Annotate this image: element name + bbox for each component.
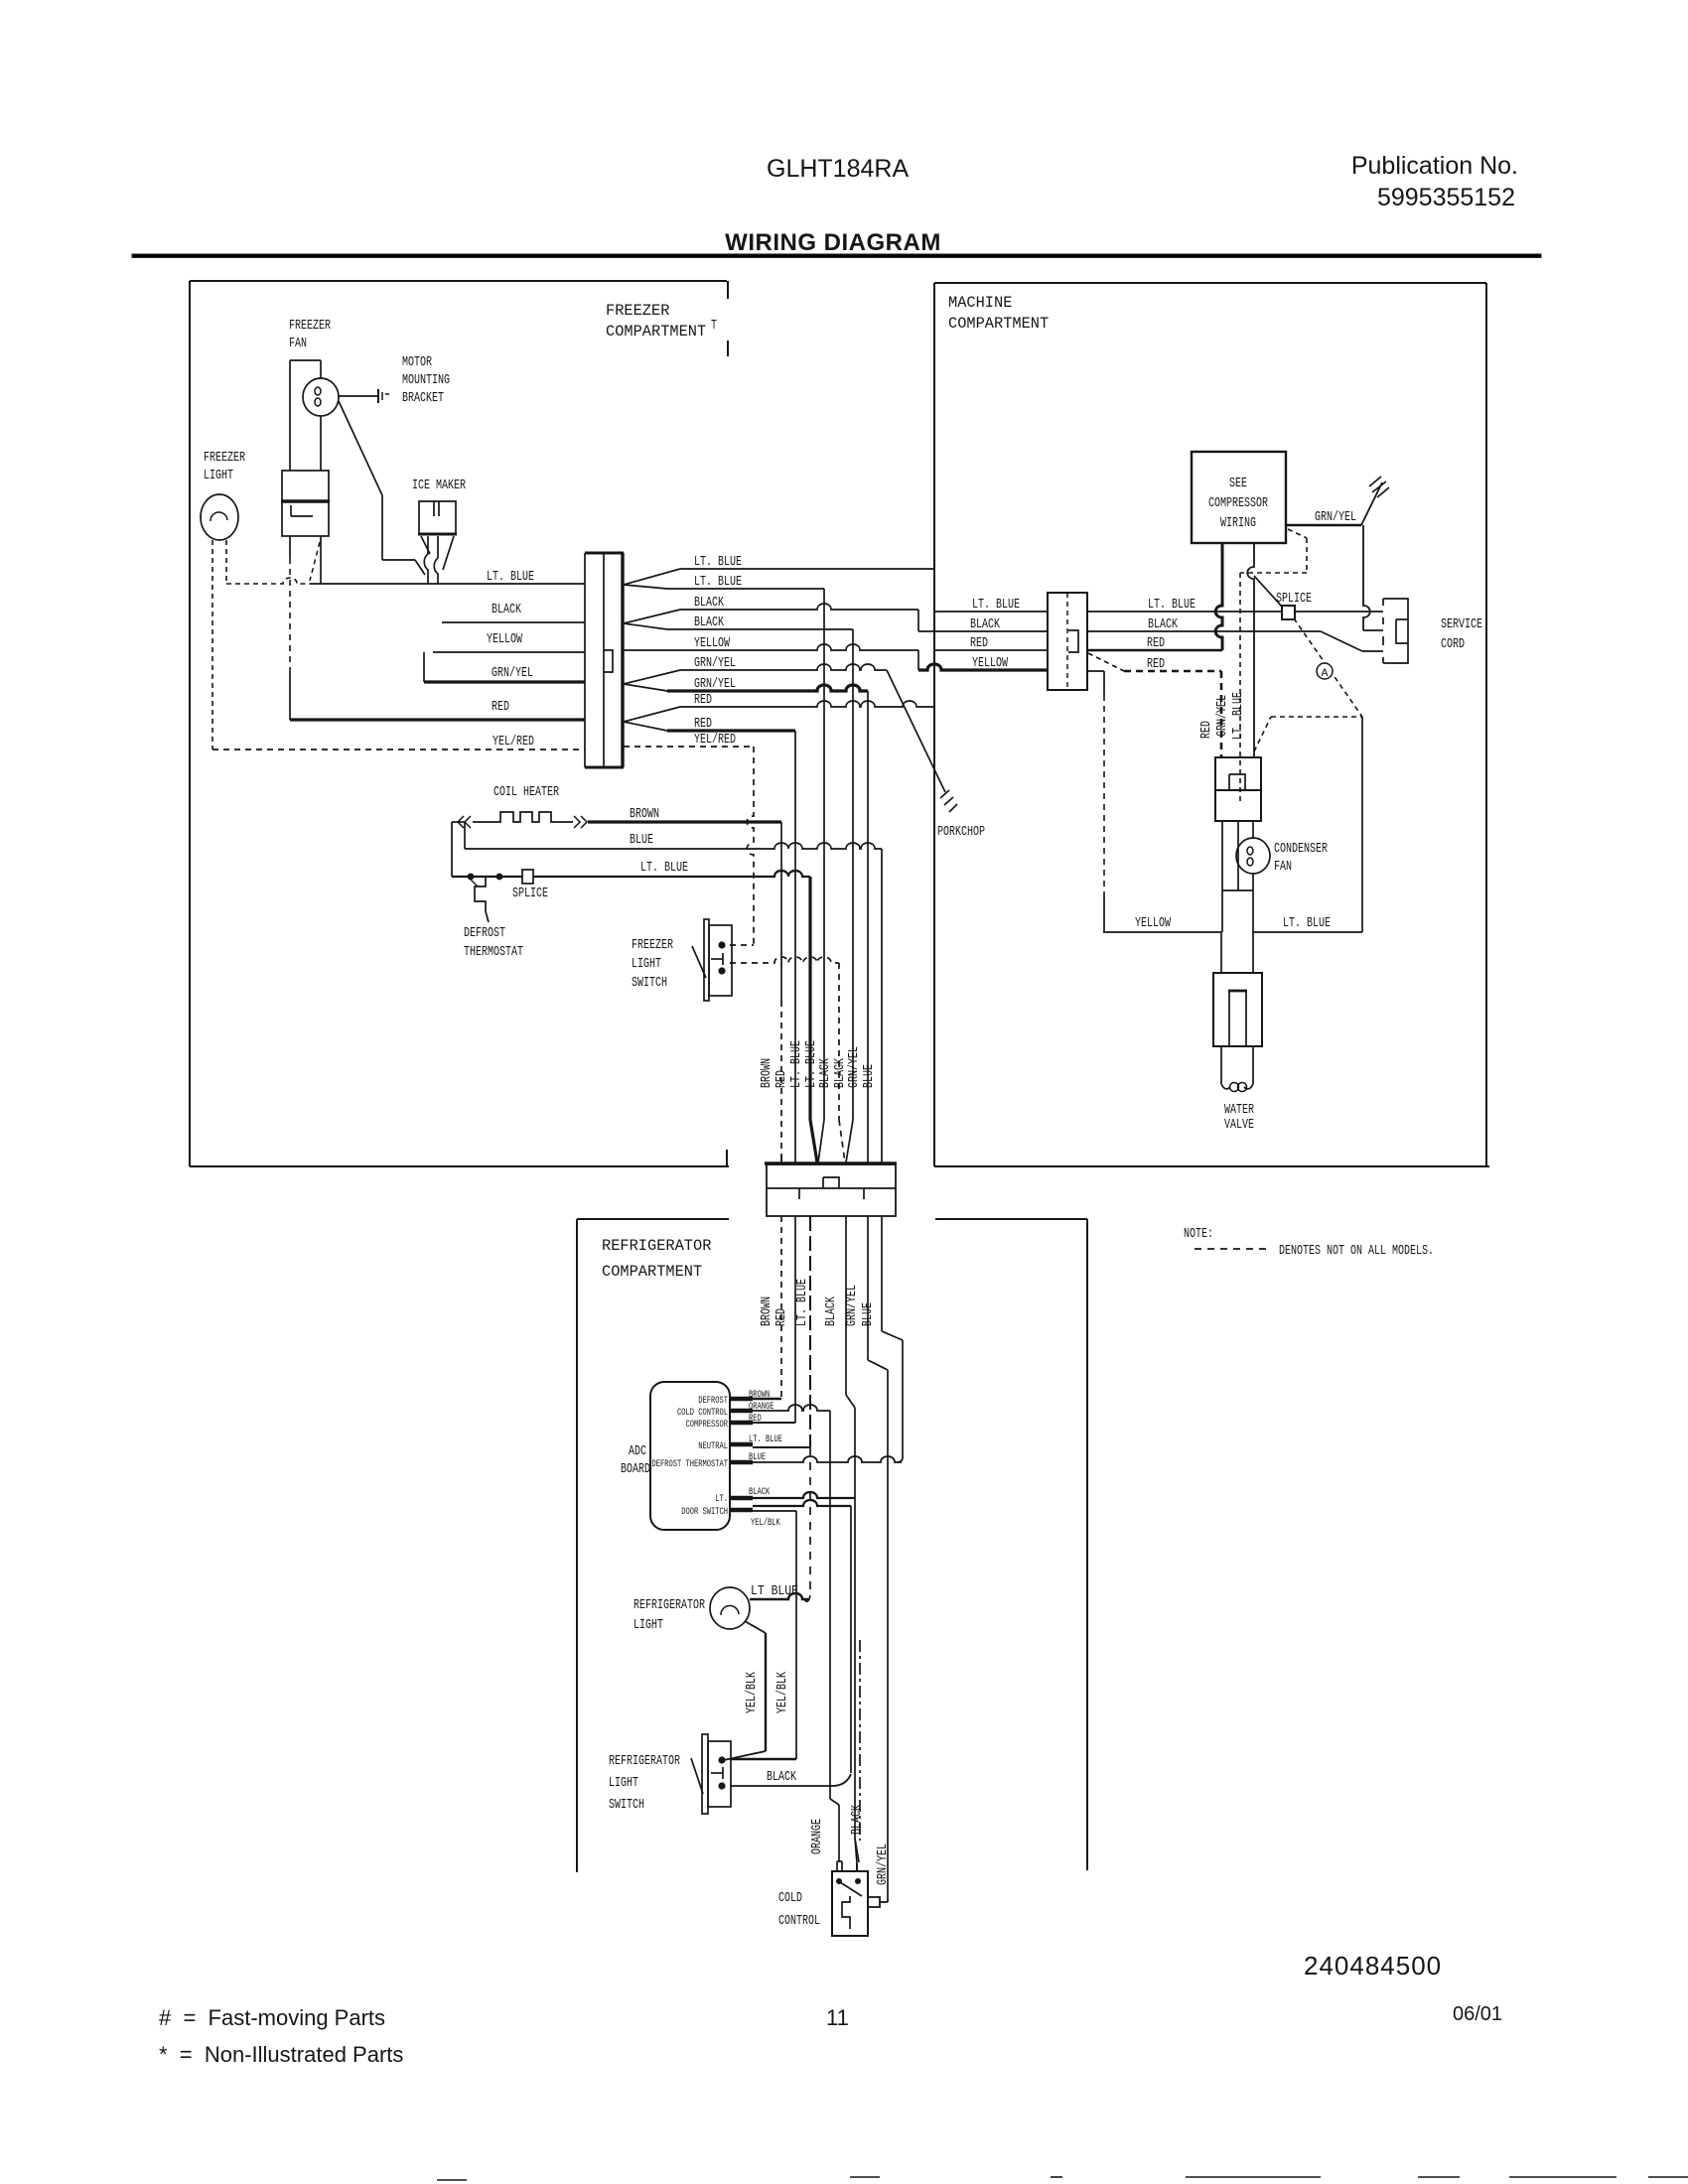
wire GRN/YEL run 2 (667, 685, 868, 691)
freezer fan body rectangles (282, 471, 329, 501)
wire RED dashed to relay (1087, 670, 1104, 672)
svg-text:SERVICE: SERVICE (1441, 617, 1482, 632)
wire YEL/BLK top contact (730, 1758, 796, 1760)
wire BLUE vertical drop (881, 849, 883, 1163)
wire RED machine (934, 649, 1048, 651)
svg-text:COIL HEATER: COIL HEATER (493, 785, 559, 800)
ice maker pins (424, 536, 428, 584)
svg-text:240484500: 240484500 (1304, 1951, 1442, 1980)
svg-text:BRACKET: BRACKET (402, 391, 444, 406)
svg-text:RED: RED (970, 636, 988, 651)
wire BLUE heater (465, 843, 882, 849)
svg-text:CONDENSER: CONDENSER (1274, 842, 1328, 857)
title underline rule (132, 254, 1541, 257)
wire BLUE from ADC defrost thermostat (753, 1456, 902, 1462)
wire BROWN to ADC defrost pin (753, 1398, 781, 1401)
wire LT.BLUE step at machine border (933, 569, 935, 612)
wire ORANGE from ADC (753, 1405, 830, 1411)
lt.blue dash-dot spur (859, 1640, 861, 1841)
svg-text:GRN/YEL: GRN/YEL (1215, 695, 1230, 737)
svg-text:RED: RED (774, 1070, 789, 1088)
wire condenser fan bottom (1252, 874, 1254, 932)
svg-text:MOUNTING: MOUNTING (402, 373, 450, 388)
svg-text:ORANGE: ORANGE (810, 1819, 825, 1854)
wire LT. BLUE vertical drop 2 (823, 589, 825, 1120)
svg-text:5995355152: 5995355152 (1377, 184, 1515, 211)
svg-text:WATER: WATER (1224, 1103, 1254, 1118)
svg-text:BLACK: BLACK (767, 1770, 797, 1785)
ice maker body (419, 501, 456, 534)
wire LT. BLUE below connector (809, 1216, 811, 1447)
svg-text:NOTE:: NOTE: (1184, 1227, 1213, 1242)
svg-text:BLACK: BLACK (833, 1057, 848, 1088)
svg-text:BLUE: BLUE (630, 833, 653, 848)
svg-text:LIGHT: LIGHT (609, 1776, 638, 1791)
defrost thermostat symbol (475, 877, 489, 922)
wire YELLOW bottom run (1103, 931, 1221, 933)
wire BLACK feeder (442, 621, 585, 623)
svg-text:YEL/RED: YEL/RED (694, 733, 736, 748)
wire BLACK below connector (845, 1216, 847, 1395)
svg-text:GRN/YEL: GRN/YEL (694, 656, 736, 671)
cold control side tab (868, 1897, 880, 1907)
wire fanout BLACK pair (624, 610, 680, 623)
svg-text:LT. BLUE: LT. BLUE (972, 598, 1020, 613)
svg-text:FREEZER: FREEZER (606, 302, 669, 320)
svg-text:YELLOW: YELLOW (487, 632, 523, 647)
wire GRN/YEL main vertical (887, 1370, 889, 1898)
wire fanout RED pair (624, 707, 680, 722)
svg-text:SPLICE: SPLICE (512, 887, 548, 901)
wire bracket diagonal to ice maker (339, 401, 382, 495)
wire LT BLUE to light (750, 1593, 809, 1599)
svg-text:COMPARTMENT: COMPARTMENT (606, 323, 706, 341)
svg-text:FREEZER: FREEZER (289, 319, 331, 334)
svg-text:PORKCHOP: PORKCHOP (937, 825, 985, 840)
cold control left pin (837, 1861, 842, 1871)
svg-text:DEFROST THERMOSTAT: DEFROST THERMOSTAT (652, 1458, 729, 1470)
svg-text:LT. BLUE: LT. BLUE (694, 555, 742, 570)
wire water valve coil legs (1220, 1046, 1222, 1084)
svg-text:LT. BLUE: LT. BLUE (749, 1433, 782, 1445)
svg-text:LT. BLUE: LT. BLUE (1231, 692, 1246, 740)
wire GRN/YEL into cold control (880, 1901, 888, 1903)
svg-text:RED: RED (694, 717, 712, 732)
wire dashed switch lower contact (730, 957, 839, 963)
wire lt.blue splice to plug (1294, 611, 1383, 613)
svg-text:VALVE: VALVE (1224, 1118, 1254, 1133)
wire fan motor to body (320, 416, 322, 471)
svg-text:SEE: SEE (1229, 477, 1247, 491)
wire BLACK dashed vertical drop (838, 963, 840, 1120)
wire GRN/YEL below connector (867, 1216, 869, 1360)
wire BROWN below connector dashed (780, 1216, 782, 1399)
connector C3 refrigerator harness (765, 1161, 897, 1164)
svg-text:A: A (1322, 668, 1329, 680)
svg-text:RED: RED (492, 700, 509, 715)
svg-text:DEFROST: DEFROST (698, 1395, 728, 1407)
refrigerator light bulb (710, 1587, 750, 1629)
svg-text:LT. BLUE: LT. BLUE (1283, 916, 1331, 931)
wire GRN/YEL vertical drop (867, 691, 869, 1163)
svg-text:REFRIGERATOR: REFRIGERATOR (602, 1237, 711, 1255)
svg-text:RED: RED (694, 693, 712, 708)
svg-text:NEUTRAL: NEUTRAL (698, 1440, 728, 1452)
svg-text:GRN/YEL: GRN/YEL (847, 1046, 862, 1088)
svg-text:COLD: COLD (778, 1891, 802, 1906)
porkchop ground hatching (940, 790, 949, 798)
freezer fan motor circle (303, 378, 339, 416)
wire GRN/YEL feeder (424, 680, 585, 683)
wire freezer light dashed to yel/red (211, 540, 213, 750)
wire RED vertical drop (794, 731, 796, 1163)
svg-text:YEL/BLK: YEL/BLK (775, 1671, 790, 1713)
connector C1 freezer harness (585, 552, 624, 555)
wire fan RED drop (289, 536, 291, 558)
svg-text:GLHT184RA: GLHT184RA (767, 155, 909, 183)
ground symbol (1372, 481, 1386, 492)
refrigerator compartment box (577, 1218, 729, 1220)
svg-text:LT. BLUE: LT. BLUE (795, 1279, 810, 1326)
svg-text:LT. BLUE: LT. BLUE (789, 1040, 804, 1088)
svg-text:ADC: ADC (629, 1444, 646, 1459)
svg-text:LT.: LT. (715, 1493, 728, 1505)
ADC board box (650, 1382, 730, 1530)
svg-text:MACHINE: MACHINE (948, 294, 1012, 312)
freezer light switch body (704, 919, 709, 1001)
wire RED below connector (794, 1216, 796, 1423)
wire BLACK vertical drop (852, 629, 854, 1120)
connector C1 latch notch (604, 650, 613, 672)
freezer compartment box (190, 280, 727, 282)
dashed route horizontal (1271, 716, 1362, 718)
wire YELLOW step at machine border (917, 650, 919, 670)
wire BLACK machine (918, 630, 1048, 632)
wire BLACK to service cord (1087, 630, 1321, 632)
wire BLACK main vertical (854, 1408, 856, 1839)
wire fanout LT. BLUE pair (624, 569, 680, 585)
wire service neutral vertical (1361, 717, 1363, 932)
wire LT. BLUE bottom run (1253, 931, 1362, 933)
wire compressor pin2 lt.blue (1247, 543, 1254, 750)
svg-text:COMPRESSOR: COMPRESSOR (686, 1419, 729, 1431)
see compressor wiring box (1192, 452, 1286, 543)
svg-text:T: T (711, 319, 717, 334)
svg-text:YELLOW: YELLOW (1135, 916, 1172, 931)
svg-text:BLACK: BLACK (749, 1486, 771, 1498)
splice square on lt.blue (522, 870, 533, 884)
wire BLACK run 2 (667, 628, 853, 630)
svg-text:YELLOW: YELLOW (694, 636, 731, 651)
wire RED dashed relay drop (1220, 671, 1223, 757)
svg-text:GRN/YEL: GRN/YEL (694, 677, 736, 692)
svg-text:COMPARTMENT: COMPARTMENT (602, 1263, 702, 1281)
wire LT. BLUE feeder (310, 583, 585, 585)
svg-text:LT. BLUE: LT. BLUE (694, 575, 742, 590)
wire relay mid pin (1237, 821, 1239, 890)
ADC pin stubs (730, 1397, 753, 1402)
svg-text:ICE MAKER: ICE MAKER (412, 478, 466, 493)
wire pin2 diagonal to splice (1254, 576, 1282, 607)
wire GRN/YEL run 1 (680, 664, 887, 670)
wire yellow drop from connector (1103, 671, 1105, 695)
svg-text:BLACK: BLACK (492, 603, 522, 617)
wire dashed switch to yel/red (730, 944, 754, 946)
svg-text:BROWN: BROWN (760, 1297, 774, 1326)
wire water valve feeds (1220, 932, 1222, 973)
svg-text:LT. BLUE: LT. BLUE (1148, 598, 1196, 613)
wire BLUE below connector (881, 1216, 883, 1331)
wire LT. BLUE machine (934, 611, 1048, 613)
wire YELLOW feeder (433, 651, 585, 653)
svg-text:FREEZER: FREEZER (204, 451, 245, 466)
svg-text:SWITCH: SWITCH (609, 1798, 644, 1813)
svg-text:SWITCH: SWITCH (632, 976, 667, 991)
svg-text:BLUE: BLUE (862, 1064, 877, 1088)
svg-text:COLD CONTROL: COLD CONTROL (677, 1407, 728, 1419)
svg-text:GRN/YEL: GRN/YEL (492, 666, 533, 681)
svg-text:BLACK: BLACK (1148, 617, 1179, 632)
splice square (1282, 606, 1295, 619)
junction dots defrost thermostat (468, 874, 475, 881)
wire LT. BLUE vertical drop thick (808, 877, 811, 1120)
wire fan to LT. BLUE node (320, 536, 322, 584)
svg-text:CORD: CORD (1441, 637, 1465, 652)
svg-text:Publication No.: Publication No. (1351, 152, 1518, 180)
wire YEL/RED dashed feeder (212, 749, 585, 751)
circled A symbol (1317, 663, 1333, 679)
svg-text:BOARD: BOARD (621, 1462, 650, 1477)
wire NEUTRAL to ADC (753, 1446, 810, 1448)
motor mounting bracket symbol (339, 395, 377, 397)
wire RED to compressor (1087, 649, 1222, 652)
freezer light bulb (201, 494, 238, 540)
wire GRN/YEL dashed drop to relay (1239, 573, 1241, 804)
machine compartment box (934, 282, 1486, 284)
wire RED run 1 (680, 701, 934, 707)
svg-text:BROWN: BROWN (760, 1058, 774, 1088)
svg-text:BROWN: BROWN (630, 807, 659, 822)
scan noise bottom edge (850, 2176, 880, 2178)
svg-text:LIGHT: LIGHT (633, 1618, 663, 1633)
wire condenser fan top (1252, 821, 1254, 839)
svg-text:LT. BLUE: LT. BLUE (640, 861, 688, 876)
wire LT. BLUE to splice (1087, 611, 1282, 613)
svg-text:REFRIGERATOR: REFRIGERATOR (609, 1754, 680, 1769)
dashed route diagonal to relay (1254, 717, 1271, 751)
wire LT. BLUE run 1 (680, 568, 934, 570)
water valve coil (1221, 1084, 1230, 1089)
wire relay left pin (1221, 821, 1223, 932)
svg-text:LIGHT: LIGHT (632, 957, 661, 972)
svg-text:BLACK: BLACK (818, 1057, 833, 1088)
svg-text:COMPARTMENT: COMPARTMENT (948, 315, 1049, 333)
wire YELLOW run (624, 644, 918, 650)
wire YEL/RED dashed run (624, 746, 754, 748)
svg-text:RED: RED (774, 1308, 789, 1326)
wire compressor pin1 (1215, 543, 1222, 650)
svg-text:* = Non-Illustrated Parts: * = Non-Illustrated Parts (159, 2042, 403, 2067)
wire GRN/YEL to ground (1286, 524, 1361, 526)
wire RED run 2 (667, 729, 795, 732)
dashed route splice to A (1294, 618, 1362, 717)
svg-text:DENOTES NOT ON ALL MODELS.: DENOTES NOT ON ALL MODELS. (1279, 1244, 1434, 1259)
wire BLUE defrost thermostat vertical (902, 1340, 904, 1457)
svg-text:FREEZER: FREEZER (632, 938, 673, 953)
wire RED to ADC compressor pin (753, 1422, 795, 1424)
wire YELLOW machine (918, 664, 1048, 670)
wire GRN/YEL service drop (1363, 525, 1370, 630)
cold control right pin (856, 1863, 858, 1871)
svg-text:YEL/BLK: YEL/BLK (745, 1671, 760, 1713)
wire porkchop diagonal (887, 670, 945, 792)
wire freezer light dashed to lt.blue (225, 540, 227, 584)
svg-text:RED: RED (1199, 721, 1214, 739)
svg-text:LT BLUE: LT BLUE (751, 1584, 798, 1599)
coil heater element (452, 821, 465, 823)
svg-text:BLACK: BLACK (970, 617, 1001, 632)
wire BLACK from ADC (753, 1492, 855, 1498)
wire BROWN vertical drop (780, 822, 782, 1001)
svg-text:RED: RED (1147, 636, 1165, 651)
svg-text:LT. BLUE: LT. BLUE (487, 570, 534, 585)
svg-text:YELLOW: YELLOW (972, 656, 1009, 671)
svg-text:DEFROST: DEFROST (464, 926, 505, 941)
wire ORANGE vertical (829, 1411, 831, 1799)
svg-text:FAN: FAN (1274, 860, 1292, 875)
condenser fan motor (1236, 838, 1270, 874)
svg-text:GRN/YEL: GRN/YEL (1315, 510, 1356, 525)
water valve connector (1213, 973, 1262, 1046)
wire freezer fan loop top (290, 359, 321, 361)
wire relay bottom bus (1222, 889, 1253, 891)
svg-text:COMPRESSOR: COMPRESSOR (1208, 496, 1268, 511)
svg-text:11: 11 (826, 2005, 849, 2030)
svg-text:REFRIGERATOR: REFRIGERATOR (633, 1598, 705, 1613)
svg-text:MOTOR: MOTOR (402, 355, 432, 370)
wire BLACK from switch (730, 1785, 832, 1787)
wire YEL/BLK pair from ADC (753, 1500, 851, 1506)
svg-text:THERMOSTAT: THERMOSTAT (464, 945, 523, 960)
svg-text:06/01: 06/01 (1453, 2003, 1502, 2025)
svg-text:GRN/YEL: GRN/YEL (845, 1285, 860, 1326)
svg-text:WIRING: WIRING (1220, 516, 1256, 531)
service cord plug (1383, 599, 1408, 663)
connector C2 machine harness (1048, 593, 1087, 690)
svg-text:DOOR SWITCH: DOOR SWITCH (681, 1506, 728, 1518)
svg-text:RED: RED (749, 1413, 762, 1425)
wire LT. BLUE heater/defrost (452, 871, 810, 877)
svg-text:BLACK: BLACK (824, 1296, 839, 1326)
svg-text:WIRING DIAGRAM: WIRING DIAGRAM (725, 229, 941, 256)
svg-text:BLUE: BLUE (861, 1302, 876, 1326)
svg-text:# = Fast-moving Parts: # = Fast-moving Parts (159, 2005, 385, 2030)
wire YEL/BLK to door switch (753, 1510, 796, 1512)
compressor relay block (1215, 757, 1261, 821)
wire LT. BLUE dash-dot to refrigerator light (809, 1447, 811, 1593)
svg-text:LT. BLUE: LT. BLUE (804, 1040, 819, 1088)
svg-text:LIGHT: LIGHT (204, 469, 233, 483)
svg-text:GRN/YEL: GRN/YEL (876, 1843, 891, 1885)
svg-text:BLACK: BLACK (850, 1804, 865, 1835)
svg-text:BLACK: BLACK (694, 615, 725, 630)
coil heater left bracket (451, 822, 453, 877)
wire fanout GRN/YEL pair (624, 670, 680, 684)
wire RED feeder (290, 718, 585, 721)
svg-text:CONTROL: CONTROL (778, 1914, 820, 1929)
wire BLACK run 1 (680, 604, 918, 610)
wire BROWN heater (588, 820, 781, 823)
wire YEL/BLK vertical to light switch (795, 1511, 797, 1759)
wire pin2 to relay (1253, 750, 1255, 757)
wire GRN/YEL dashed from compressor (1288, 529, 1307, 538)
wire YEL/BLK from bulb (745, 1621, 766, 1633)
svg-text:SPLICE: SPLICE (1276, 592, 1312, 607)
wire YEL/RED dashed vertical (747, 747, 754, 944)
cold control box (832, 1871, 868, 1936)
svg-text:YEL/RED: YEL/RED (492, 735, 534, 750)
svg-text:BROWN: BROWN (749, 1389, 770, 1401)
refrigerator light switch body (702, 1734, 708, 1814)
wire LT. BLUE run 2 (667, 588, 824, 590)
svg-text:BLACK: BLACK (694, 596, 725, 611)
svg-text:YEL/BLK: YEL/BLK (751, 1517, 780, 1529)
wire BLACK step at machine border (917, 610, 919, 631)
svg-text:FAN: FAN (289, 337, 307, 351)
